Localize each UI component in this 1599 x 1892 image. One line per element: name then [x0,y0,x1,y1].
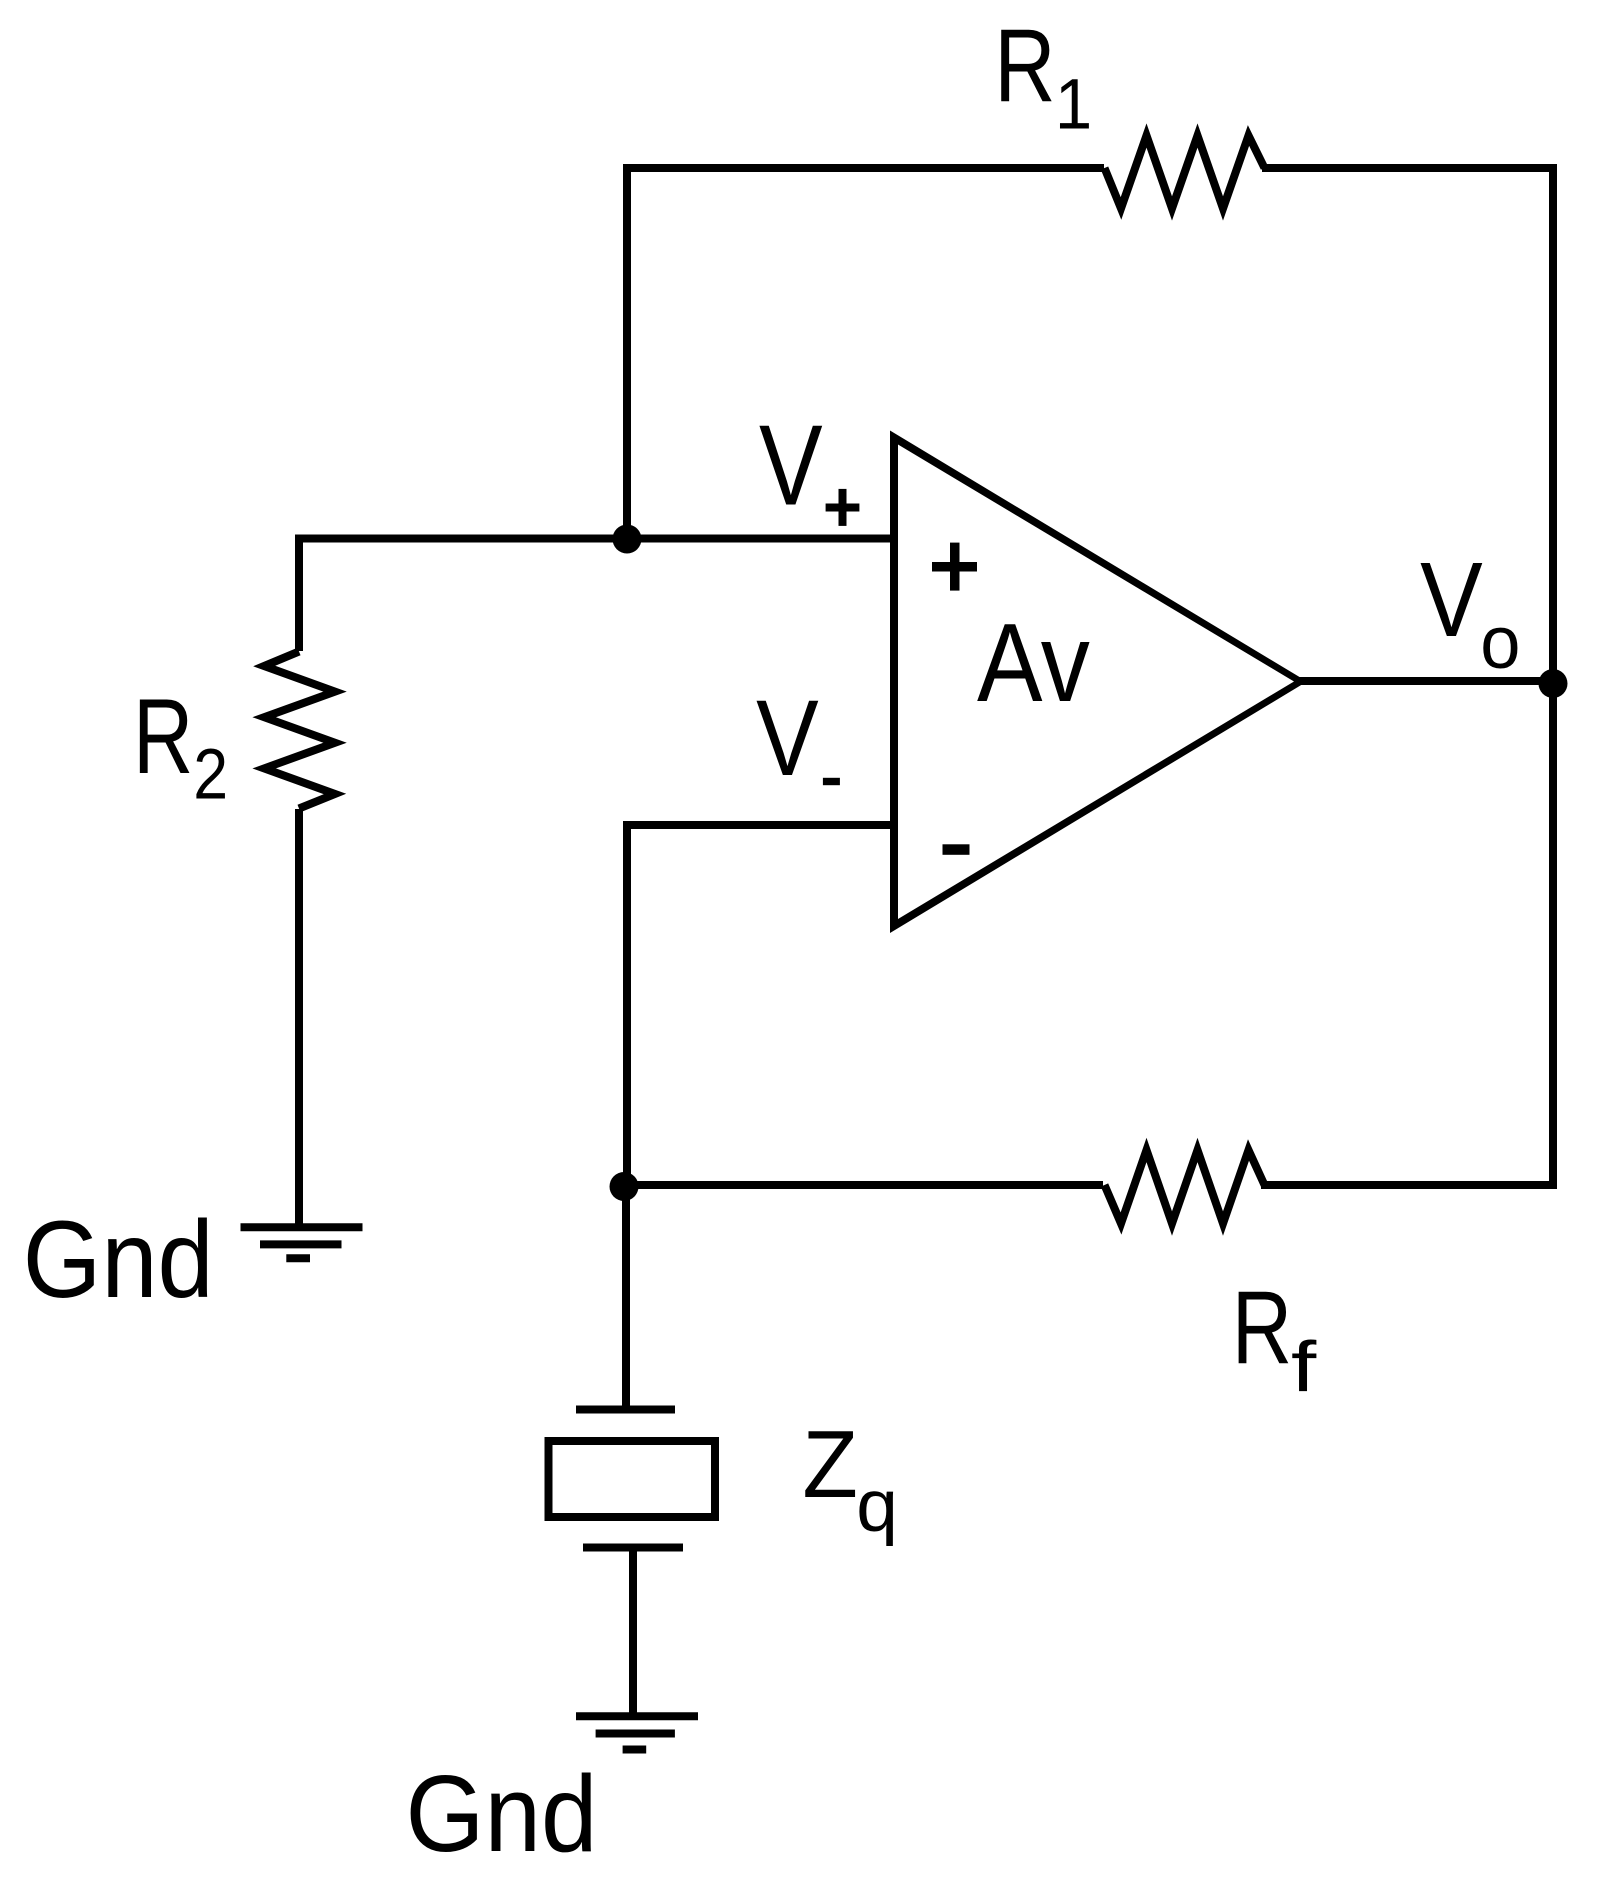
svg-text:Av: Av [977,601,1090,725]
crystal Zq top plate [576,1406,675,1414]
wire Rf right segment [1261,1181,1553,1189]
svg-text:2: 2 [193,735,228,815]
wire top-left from V+ node up and right to R1 [627,168,1104,544]
wire right vertical Vo to Rf [1549,164,1557,1189]
svg-text:Z: Z [802,1410,858,1518]
svg-text:R: R [1232,1269,1292,1386]
resistor Rf [1105,1150,1265,1224]
label V- letter V [756,679,819,798]
label R1 letter R [994,8,1055,124]
V+ subscript plus marker [826,504,860,512]
V- subscript minus marker [823,778,840,785]
ground (bottom) [576,1712,698,1720]
svg-text:Gnd: Gnd [23,1199,214,1321]
crystal Zq bottom plate [583,1544,683,1552]
op-amp U1 [890,431,1307,934]
resistor R2 [264,652,335,809]
node B junction dot (V- / Rf / Zq) [610,1172,639,1201]
op-amp plus input marker [932,562,977,572]
wire V- input horizontal and down [627,825,894,1186]
svg-text:V: V [759,403,823,530]
wire output [1299,677,1553,685]
svg-text:o: o [1480,601,1520,684]
wire V+ input horizontal [295,535,894,543]
label Zq letter Z [802,1410,858,1518]
label Vo letter V [1420,541,1483,660]
svg-text:1: 1 [1055,64,1092,144]
label Rf subscript f [1291,1328,1317,1407]
label V+ letter V [759,403,823,530]
crystal Zq body [549,1441,716,1517]
node Vo junction dot [1539,669,1568,698]
label Zq subscript q [856,1465,898,1547]
label R1 subscript 1 [1055,64,1092,144]
svg-text:R: R [994,8,1055,124]
resistor R1 [1105,136,1265,209]
label Gnd (bottom) [406,1754,598,1875]
svg-text:Gnd: Gnd [406,1754,598,1875]
svg-text:V: V [756,679,819,798]
label R2 subscript 2 [193,735,228,815]
wire crystal to ground [629,1548,637,1717]
label Av (op-amp gain) [977,601,1090,725]
svg-text:f: f [1291,1328,1317,1407]
svg-text:q: q [856,1465,898,1547]
label Gnd (left) [23,1199,214,1321]
wire Rf left segment from node [626,1181,1103,1189]
node A junction dot (V+) [613,525,642,554]
ground (left) [241,1223,363,1231]
op-amp minus input marker [943,844,970,855]
svg-text:V: V [1420,541,1483,660]
wire R2 to ground [295,809,303,1227]
wire left branch down to R2 [295,535,303,652]
label R2 letter R [133,677,193,796]
label Rf letter R [1232,1269,1292,1386]
label Vo subscript o [1480,601,1520,684]
wire R1 right to top-right corner [1262,164,1553,172]
wire node to crystal [622,1185,630,1409]
svg-text:R: R [133,677,193,796]
